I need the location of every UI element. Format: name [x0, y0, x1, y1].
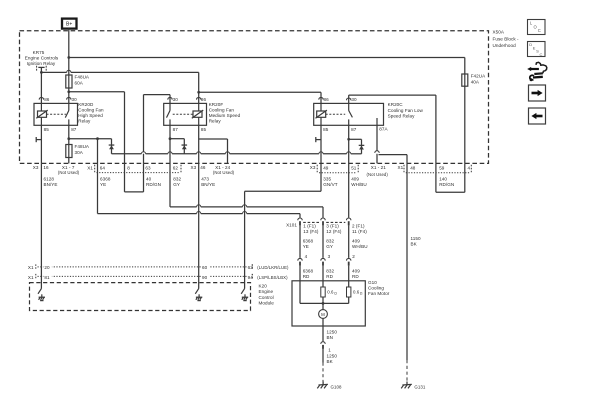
svg-text:140: 140	[439, 177, 447, 182]
fuse F48UA 30A	[66, 144, 90, 164]
ECM connector row 1	[28, 264, 251, 270]
pin labels X3 46	[191, 165, 206, 170]
svg-text:BK: BK	[327, 359, 334, 364]
wire pin 8 to pin 63 loop	[125, 163, 144, 192]
svg-text:G131: G131	[414, 384, 425, 389]
svg-text:87: 87	[351, 127, 357, 132]
svg-text:64: 64	[100, 166, 106, 171]
svg-text:RD: RD	[303, 274, 310, 279]
svg-text:87A: 87A	[379, 127, 388, 132]
wire B+ vertical	[67, 29, 70, 59]
svg-text:Relay: Relay	[209, 118, 222, 123]
icon LOC box	[528, 20, 546, 35]
wire to G108	[322, 349, 324, 382]
svg-text:Underhood: Underhood	[493, 43, 517, 48]
ECM row 2 connector name	[252, 274, 288, 280]
pin labels 64 8 63 62	[100, 166, 179, 171]
svg-text:Ω: Ω	[334, 292, 337, 296]
ECM K20 box	[30, 283, 251, 311]
diode KR20C	[349, 139, 365, 154]
svg-text:Speed Relay: Speed Relay	[388, 113, 416, 118]
ground G131	[401, 382, 426, 390]
svg-text:Cooling Fan Low: Cooling Fan Low	[388, 108, 424, 113]
svg-text:85: 85	[323, 127, 329, 132]
svg-text:3 (F1): 3 (F1)	[326, 224, 339, 229]
fuse block X50A label	[493, 29, 520, 48]
svg-text:87: 87	[71, 127, 77, 132]
wire pin 59 to pin 4 loop	[436, 163, 465, 192]
svg-text:86: 86	[44, 97, 50, 102]
svg-text:4: 4	[305, 254, 308, 259]
svg-text:G108: G108	[331, 384, 342, 389]
svg-text:87: 87	[173, 127, 179, 132]
svg-text:X1 - 21: X1 - 21	[371, 165, 387, 170]
icon next arrow box	[529, 85, 546, 101]
svg-text:F48UA: F48UA	[75, 74, 90, 79]
svg-text:Engine Controls: Engine Controls	[25, 56, 59, 61]
svg-text:0.6: 0.6	[327, 290, 334, 295]
ground G108	[317, 382, 342, 390]
X101 pin labels	[303, 224, 367, 235]
pin labels X3 16	[33, 165, 49, 170]
svg-text:1250: 1250	[327, 353, 338, 358]
svg-text:(Not Used): (Not Used)	[213, 170, 235, 175]
svg-text:81: 81	[44, 275, 50, 280]
svg-text:2 (F1): 2 (F1)	[352, 224, 365, 229]
G10 internal wires	[300, 281, 349, 310]
svg-text:K20: K20	[259, 284, 268, 289]
svg-text:BN/YE: BN/YE	[201, 182, 215, 187]
svg-text:30: 30	[351, 97, 357, 102]
svg-text:(Not Used): (Not Used)	[58, 170, 80, 175]
wire label 40 RD/GN	[146, 177, 161, 188]
svg-text:3: 3	[328, 254, 331, 259]
svg-text:Ω: Ω	[360, 292, 363, 296]
svg-text:F42UA: F42UA	[471, 73, 486, 78]
svg-text:GY: GY	[173, 182, 180, 187]
svg-text:X3: X3	[33, 165, 39, 170]
fuse F42UA 40A	[462, 73, 486, 86]
terminal mark KR20C pin 85	[316, 137, 321, 142]
ECM row 2 pins	[43, 274, 255, 280]
pin X1-21 not used	[367, 165, 389, 177]
terminal mark KR20D pin 85	[36, 137, 41, 142]
svg-text:KR20C: KR20C	[388, 102, 404, 107]
ECM low side driver 1	[38, 267, 45, 301]
relay KR20D	[34, 97, 104, 132]
diode rail	[112, 152, 362, 154]
svg-text:Fuse Block -: Fuse Block -	[493, 36, 520, 41]
ECM low side driver 3	[241, 267, 248, 301]
wires X101 to fan connector	[300, 225, 349, 258]
connector row X1 right	[398, 165, 472, 173]
wire feed to KR20F pin 86	[197, 92, 201, 103]
wire 87A branch to pin 48	[379, 155, 408, 164]
svg-text:High Speed: High Speed	[78, 113, 103, 118]
wire pin 63 to KR20F pin 30	[144, 95, 173, 164]
wire pin 64 drop	[97, 139, 99, 164]
wire labels 6368 YE / 832 GY / 409 WH/BU	[303, 238, 368, 249]
wire KR75 to KR20D pin 86	[39, 72, 43, 103]
svg-text:473: 473	[201, 177, 209, 182]
pin labels 49 51	[323, 165, 357, 170]
wire label 140 RD/GN	[439, 177, 454, 188]
svg-text:Engine: Engine	[259, 289, 274, 294]
svg-text:49: 49	[323, 165, 329, 170]
svg-text:51: 51	[351, 165, 357, 170]
svg-text:KR20D: KR20D	[78, 102, 94, 107]
svg-text:X3: X3	[310, 165, 316, 170]
wire 6128 BN/YE to ECM pin 20	[40, 163, 42, 267]
svg-text:2: 2	[352, 254, 355, 259]
B+ terminal	[62, 19, 77, 29]
svg-text:Ignition Relay: Ignition Relay	[27, 61, 56, 66]
motor G10 box	[292, 281, 365, 326]
svg-text:(LUD/LKR/LUE): (LUD/LKR/LUE)	[257, 265, 289, 270]
svg-text:G10: G10	[368, 280, 377, 285]
diode KR20D	[109, 139, 115, 154]
wire KR20D 85 to pin 16	[40, 125, 42, 163]
wire KR20F 87 to pin 62	[169, 125, 172, 163]
wire 335 GN/VT to ECM pin 63	[245, 163, 321, 267]
svg-text:X3: X3	[191, 165, 197, 170]
wire 140 RD/GN feed to KR20C pin 30	[347, 95, 436, 163]
connector at fan motor	[298, 258, 351, 265]
svg-text:WH/BU: WH/BU	[352, 244, 368, 249]
wire KR20C 87 to pin 51	[347, 125, 350, 163]
connector pin 1	[321, 342, 331, 353]
svg-text:1: 1	[328, 347, 331, 352]
svg-text:X1: X1	[28, 275, 34, 280]
wires into G10	[300, 266, 349, 281]
svg-text:6368: 6368	[100, 177, 111, 182]
svg-text:1250: 1250	[327, 329, 338, 334]
svg-text:12 (F4): 12 (F4)	[326, 229, 342, 234]
svg-text:X101: X101	[286, 222, 297, 227]
svg-text:46: 46	[200, 165, 206, 170]
fuse block X50A border	[20, 31, 489, 164]
wire KR20C 85 to pin 49	[320, 125, 322, 163]
svg-text:M: M	[321, 312, 325, 317]
wire B+ bus to F42UA	[69, 58, 465, 75]
wire KR20C 87A to X1-21	[375, 125, 379, 163]
svg-text:Fan Motor: Fan Motor	[368, 291, 390, 296]
svg-text:59: 59	[439, 165, 445, 170]
svg-text:(LSP/LBS/LBX): (LSP/LBS/LBX)	[257, 275, 288, 280]
svg-text:85: 85	[201, 127, 207, 132]
wire KR20F 85 branch to X1-24	[199, 139, 228, 163]
svg-text:409: 409	[352, 238, 360, 243]
svg-text:1150: 1150	[411, 236, 421, 241]
wire labels 6368 RD / 832 RD / 409 RD	[303, 268, 361, 279]
svg-text:40A: 40A	[471, 79, 480, 84]
motor M	[319, 310, 328, 319]
svg-text:(Not Used): (Not Used)	[367, 172, 389, 177]
wire label 473 BN/YE	[201, 177, 215, 188]
svg-text:Cooling: Cooling	[368, 285, 384, 290]
ECM low side driver 2	[195, 267, 202, 301]
svg-text:RD/GN: RD/GN	[439, 182, 454, 187]
svg-text:6128: 6128	[44, 177, 55, 182]
svg-text:30: 30	[72, 97, 78, 102]
wire KR20F 85 to pin 46	[198, 125, 200, 163]
svg-text:Control: Control	[259, 295, 274, 300]
ECM row 1 pins	[43, 264, 255, 270]
svg-text:832: 832	[173, 177, 181, 182]
svg-text:1 (F1): 1 (F1)	[303, 224, 316, 229]
svg-text:X1: X1	[398, 165, 404, 170]
svg-text:335: 335	[323, 177, 331, 182]
svg-text:Cooling Fan: Cooling Fan	[78, 107, 104, 112]
connector X101	[286, 218, 351, 227]
svg-text:832: 832	[326, 238, 334, 243]
wire F48UA output junction	[67, 88, 71, 103]
svg-text:60A: 60A	[75, 80, 84, 85]
wire 1150 BK	[406, 163, 408, 381]
G10 label	[368, 280, 390, 296]
fan connector pins 4 3 2	[305, 254, 356, 259]
svg-text:BN: BN	[327, 335, 333, 340]
svg-text:Relay: Relay	[78, 118, 91, 123]
relay KR20C	[314, 97, 424, 132]
svg-text:Medium Speed: Medium Speed	[209, 113, 241, 118]
wire 832 GY to X101	[170, 163, 323, 217]
svg-text:Cooling Fan: Cooling Fan	[209, 107, 235, 112]
svg-text:40: 40	[146, 177, 152, 182]
svg-text:KR20F: KR20F	[209, 102, 224, 107]
svg-text:16: 16	[43, 165, 49, 170]
icon repair arrow and wrench	[527, 62, 547, 81]
ECM K20 label	[259, 284, 275, 306]
pin X1-24 not used	[213, 165, 235, 175]
svg-text:0.6: 0.6	[353, 290, 360, 295]
svg-text:409: 409	[352, 268, 360, 273]
icon DESC box	[528, 42, 546, 57]
wire 6368 YE to X101	[98, 163, 301, 217]
resistor 0.6 ohm right	[347, 287, 363, 297]
svg-text:62: 62	[173, 166, 179, 171]
svg-text:90: 90	[202, 275, 208, 280]
svg-text:86: 86	[201, 97, 207, 102]
svg-text:86: 86	[324, 97, 330, 102]
pin X1-7 not used	[58, 165, 80, 175]
relay KR75	[25, 50, 59, 72]
svg-text:X1: X1	[28, 265, 34, 270]
svg-text:Module: Module	[259, 300, 275, 305]
svg-text:WH/BU: WH/BU	[351, 182, 367, 187]
icon back arrow box	[529, 108, 546, 124]
resistor 0.6 ohm left	[321, 287, 337, 297]
wire label 6128 BN/YE	[44, 177, 58, 188]
svg-text:KR75: KR75	[33, 50, 45, 55]
wire KR75 output feed	[40, 70, 200, 93]
wire KR20D 87 junction	[67, 125, 70, 144]
svg-text:YE: YE	[100, 182, 106, 187]
wire KR20D 87 branch to pin 64	[69, 137, 112, 140]
svg-text:30: 30	[173, 97, 179, 102]
svg-text:832: 832	[326, 268, 334, 273]
svg-text:C: C	[540, 52, 543, 57]
wire F48UA to pin 8	[69, 92, 125, 164]
svg-text:RD: RD	[326, 274, 333, 279]
wire motor to ground connector	[322, 318, 324, 341]
svg-text:409: 409	[351, 177, 359, 182]
wire label 6368 YE	[100, 177, 111, 188]
wire F42UA to pin 4	[464, 86, 466, 163]
svg-text:X1: X1	[87, 165, 93, 170]
svg-text:85: 85	[44, 127, 50, 132]
wire label 409 WH/BU	[351, 177, 367, 188]
wire label 1250 BK	[327, 353, 338, 364]
wire label 832 GY	[173, 177, 181, 188]
relay KR20F	[164, 97, 241, 132]
wire label 1250 BN	[327, 329, 338, 340]
svg-text:6368: 6368	[303, 238, 314, 243]
svg-text:30A: 30A	[75, 150, 84, 155]
wire 473 BN/YE to ECM pin 60	[198, 163, 200, 267]
svg-text:BK: BK	[411, 242, 418, 247]
svg-text:GY: GY	[326, 244, 333, 249]
svg-text:GN/VT: GN/VT	[323, 182, 337, 187]
ECM row 1 connector name	[252, 264, 289, 270]
wire label 335 GN/VT	[323, 177, 337, 188]
connector row X1 left	[87, 165, 181, 173]
pin labels 48 59 4	[410, 165, 470, 170]
svg-text:11 (F4): 11 (F4)	[352, 229, 367, 234]
diode KR20F	[170, 139, 187, 154]
svg-text:RD: RD	[352, 274, 359, 279]
svg-text:C: C	[538, 28, 541, 33]
svg-text:20: 20	[44, 265, 50, 270]
svg-text:B+: B+	[66, 22, 72, 28]
fuse F48UA 60A	[66, 58, 90, 89]
ECM connector row 2	[28, 274, 251, 280]
svg-text:RD/GN: RD/GN	[146, 182, 161, 187]
svg-text:63: 63	[145, 166, 151, 171]
connector row X3 mid	[310, 165, 358, 173]
wire label 1150 BK	[411, 236, 421, 247]
svg-text:F48UA: F48UA	[75, 144, 90, 149]
svg-text:8: 8	[127, 166, 130, 171]
svg-text:60: 60	[202, 265, 208, 270]
svg-text:6368: 6368	[303, 268, 314, 273]
svg-text:13 (F4): 13 (F4)	[303, 229, 319, 234]
svg-text:4: 4	[468, 165, 471, 170]
wire ignition feed to KR20C pin 86	[199, 92, 324, 103]
svg-text:YE: YE	[303, 244, 309, 249]
svg-text:X50A: X50A	[493, 29, 505, 34]
wire 409 WH/BU to X101	[348, 163, 350, 217]
svg-text:BN/YE: BN/YE	[44, 182, 58, 187]
svg-text:48: 48	[410, 165, 416, 170]
